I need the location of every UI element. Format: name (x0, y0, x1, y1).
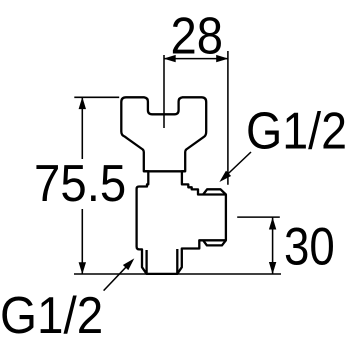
G1/2 top leader line (222, 152, 252, 180)
dim 75.5 line lower (81, 209, 83, 274)
handle skirt bottom edge (144, 170, 185, 172)
bottom outlet thread root line left (145, 250, 147, 274)
dim 75.5 top arrow (79, 97, 86, 109)
svg-text:28: 28 (171, 7, 224, 65)
dim 30 top extension line (237, 216, 280, 218)
right outlet bottom chamfer (203, 240, 226, 245)
valve body and wing handle outline (121, 97, 226, 274)
bottom shared extension line (74, 273, 281, 275)
dim 75.5 line upper (81, 97, 83, 159)
dim 30 top arrow (269, 217, 276, 229)
svg-text:G1/2: G1/2 (246, 102, 347, 160)
dim 75.5 top extension line (74, 96, 119, 98)
bottom outlet thread root line right (176, 249, 178, 274)
G1/2 top leader arrow (219, 171, 231, 182)
dim 28 line (164, 58, 228, 60)
svg-text:75.5: 75.5 (34, 154, 126, 212)
svg-text:G1/2: G1/2 (0, 286, 103, 344)
dim 28 left arrow (164, 55, 176, 62)
dim 75.5 bottom arrow (79, 262, 86, 274)
dim 30 bottom arrow (269, 262, 276, 274)
stem centerline (163, 55, 165, 128)
dim 30 line (272, 217, 274, 274)
G1/2 bottom leader line (104, 260, 133, 290)
right outlet top chamfer (203, 189, 226, 194)
dim 28 right arrow (216, 55, 228, 62)
G1/2 bottom leader arrow (123, 258, 134, 270)
dim 28 right extension line (227, 51, 229, 185)
svg-text:30: 30 (284, 218, 335, 277)
